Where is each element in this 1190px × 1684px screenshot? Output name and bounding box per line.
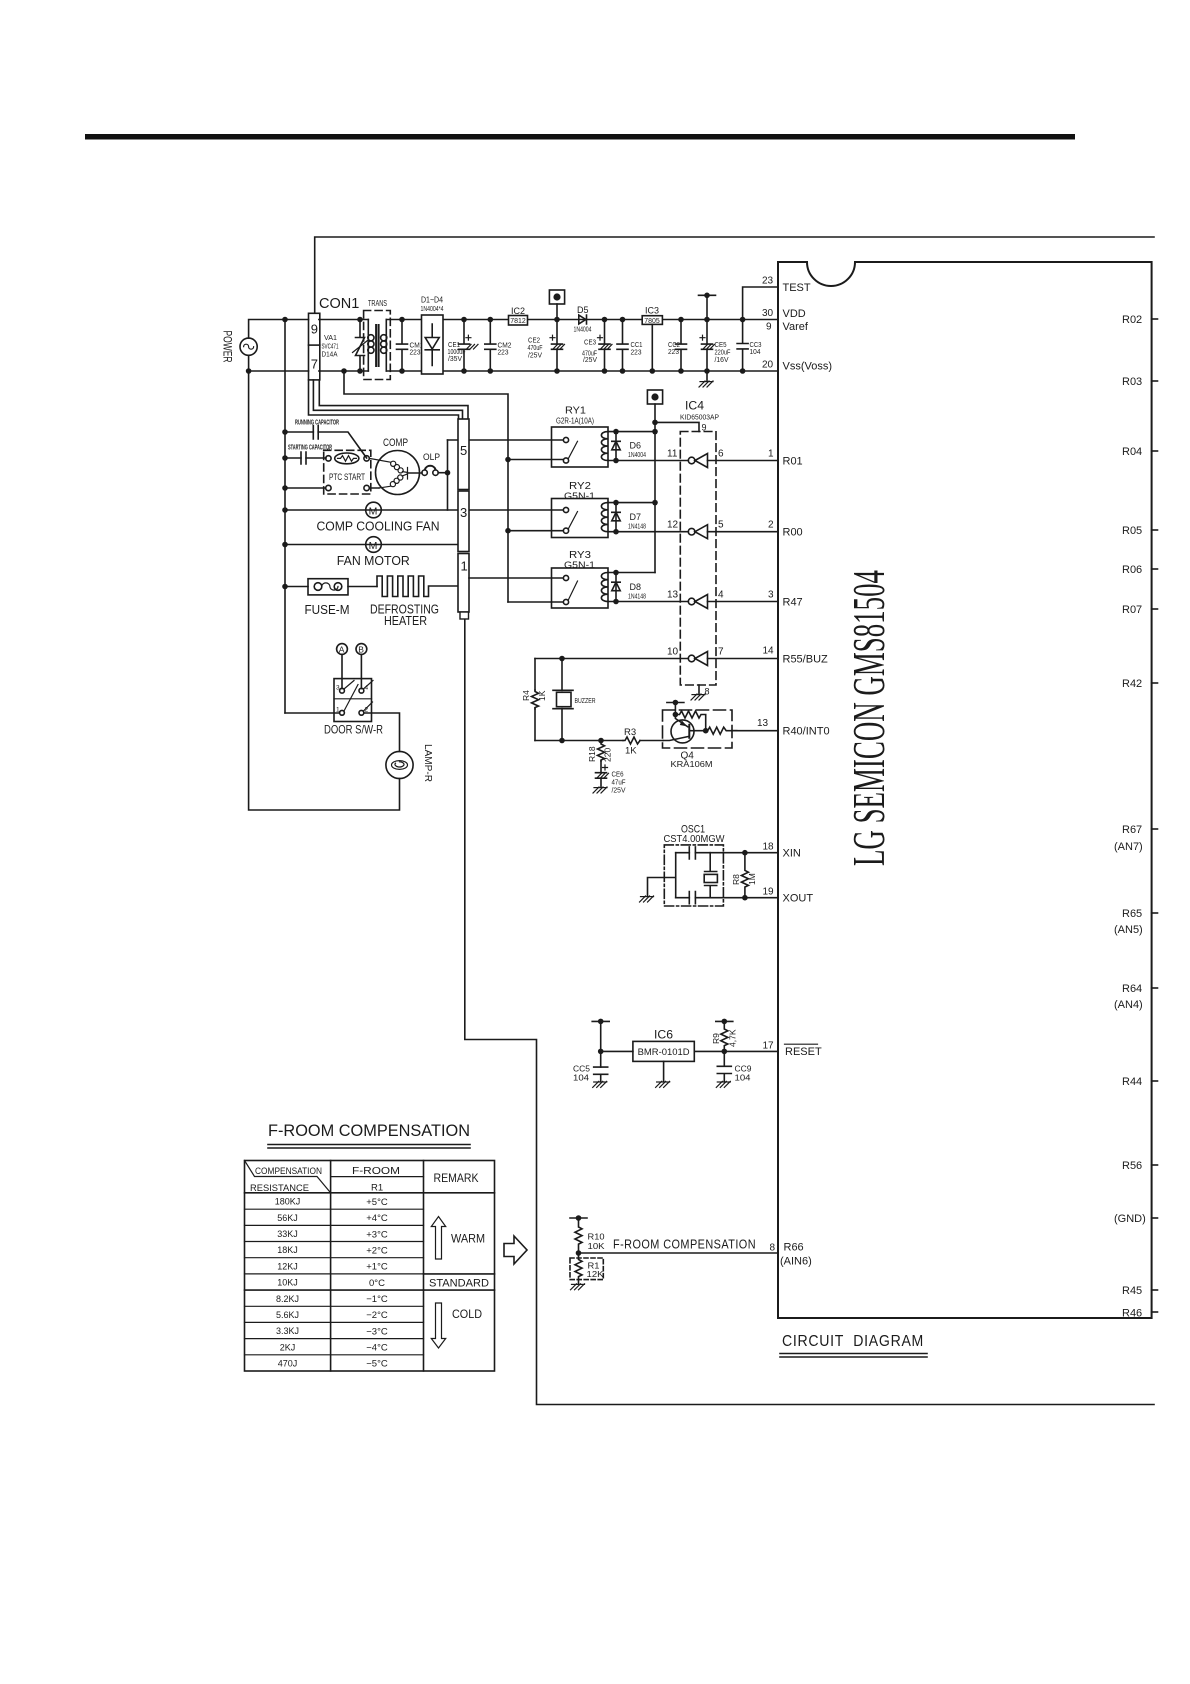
svg-text:LG SEMICON GMS81504: LG SEMICON GMS81504: [843, 570, 894, 866]
svg-text:+3°C: +3°C: [366, 1229, 388, 1240]
ground CC9: [716, 1081, 730, 1087]
test point TP1: [549, 290, 564, 304]
svg-text:POWER: POWER: [221, 331, 233, 363]
svg-text:−3°C: −3°C: [366, 1326, 388, 1337]
svg-text:12KJ: 12KJ: [277, 1261, 298, 1271]
svg-text:/25V: /25V: [583, 357, 597, 364]
wire IC6 out to RESET: [694, 1050, 778, 1052]
resistor R8 1M: [731, 850, 757, 901]
svg-text:Vss(Voss): Vss(Voss): [783, 361, 833, 373]
svg-text:CIRCUIT DIAGRAM: CIRCUIT DIAGRAM: [782, 1333, 924, 1350]
svg-text:(AN7): (AN7): [1114, 841, 1143, 853]
svg-text:R47: R47: [783, 597, 803, 609]
regulator IC2 7812: [509, 306, 528, 325]
capacitor CE3 electrolytic: [582, 317, 612, 374]
svg-text:9: 9: [766, 322, 772, 333]
node neutral branch for relay commons: [341, 368, 347, 374]
svg-text:LAMP-R: LAMP-R: [422, 744, 434, 782]
wire fuse row: [285, 586, 377, 588]
svg-text:R4: R4: [521, 690, 531, 701]
svg-text:104: 104: [735, 1073, 751, 1083]
svg-text:TRANS: TRANS: [368, 299, 387, 308]
svg-text:R04: R04: [1122, 446, 1142, 458]
node buzzer top: [559, 656, 565, 662]
svg-text:CM2: CM2: [498, 343, 512, 350]
capacitor CC5 104: [573, 1064, 608, 1083]
svg-text:CC1: CC1: [631, 342, 643, 349]
svg-text:CE3: CE3: [584, 339, 596, 346]
svg-text:FUSE-M: FUSE-M: [305, 602, 350, 617]
wire R4 branch: [534, 659, 536, 741]
node coil supply branch: [652, 420, 658, 426]
ground OSC1: [640, 896, 654, 902]
svg-text:(AN4): (AN4): [1114, 999, 1143, 1011]
svg-text:18KJ: 18KJ: [277, 1245, 298, 1255]
wire left bus: [284, 320, 286, 714]
svg-text:F-ROOM COMPENSATION: F-ROOM COMPENSATION: [613, 1238, 756, 1252]
svg-text:13: 13: [757, 718, 769, 729]
svg-text:COLD: COLD: [452, 1307, 482, 1321]
wire RY1 coil out to inverter: [608, 460, 688, 462]
svg-text:180KJ: 180KJ: [275, 1197, 301, 1207]
svg-text:/25V: /25V: [612, 788, 626, 795]
svg-text:1N4148: 1N4148: [628, 594, 646, 601]
svg-text:8.2KJ: 8.2KJ: [276, 1294, 299, 1304]
schematic border bottom-left: [465, 619, 1154, 1405]
svg-text:18: 18: [763, 842, 775, 853]
resistor R4 1K: [521, 690, 547, 709]
svg-text:R56: R56: [1122, 1160, 1142, 1172]
svg-text:+1°C: +1°C: [366, 1262, 388, 1273]
switch DOOR S/W-R: [324, 679, 383, 737]
svg-text:3: 3: [460, 505, 467, 520]
wire CON1 lower pin A to strip: [309, 380, 459, 419]
microcontroller U2 GMS81504: [778, 262, 1152, 1318]
svg-text:104: 104: [573, 1073, 589, 1083]
svg-text:D5: D5: [577, 305, 589, 315]
node buzzer bottom: [559, 738, 565, 744]
fuse FUSE-M: [305, 579, 350, 617]
inverter U1A: [667, 449, 724, 468]
relay RY3: [552, 549, 609, 608]
svg-text:470uF: 470uF: [528, 345, 543, 352]
resistor R3 1K: [623, 727, 640, 757]
svg-text:47uF: 47uF: [612, 780, 626, 787]
svg-text:R67: R67: [1122, 824, 1142, 836]
node relay2 common: [505, 528, 511, 534]
svg-text:CE1: CE1: [448, 342, 460, 349]
svg-text:IC6: IC6: [654, 1028, 673, 1042]
svg-text:1: 1: [461, 559, 468, 574]
svg-text:6: 6: [718, 449, 724, 460]
ground IC6: [656, 1081, 670, 1087]
svg-text:30: 30: [762, 308, 774, 319]
transistor Q4 KRA106M: [663, 703, 737, 769]
wire RY2 coil top: [608, 502, 655, 504]
wire RY3 coil top: [608, 572, 655, 574]
wire reset left branch: [600, 1021, 602, 1081]
arrow table pointer: [504, 1236, 527, 1264]
svg-text:CON1: CON1: [319, 296, 359, 312]
overload protector OLP: [422, 452, 450, 476]
svg-text:IC4: IC4: [685, 399, 704, 413]
svg-text:M: M: [369, 505, 378, 517]
AC power source: [240, 338, 257, 355]
svg-text:BUZZER: BUZZER: [575, 696, 596, 705]
resistor R18 220: [587, 741, 613, 763]
wire RY3 coil out to inverter: [608, 601, 688, 603]
svg-text:4: 4: [718, 590, 724, 601]
wire IC4 pin9 stub: [655, 422, 699, 431]
thermistor PTC START: [324, 450, 371, 494]
svg-text:1K: 1K: [537, 690, 547, 701]
svg-text:1N4148: 1N4148: [628, 524, 646, 531]
svg-text:−5°C: −5°C: [366, 1359, 388, 1370]
node R10 R1: [576, 1250, 582, 1256]
svg-text:R64: R64: [1122, 983, 1142, 995]
svg-text:(AN5): (AN5): [1114, 924, 1143, 936]
wire RY2 coil out to inverter: [608, 531, 688, 533]
svg-text:33KJ: 33KJ: [277, 1229, 298, 1239]
svg-text:IC2: IC2: [511, 306, 525, 316]
bridge rectifier D1~D4: [421, 296, 444, 375]
svg-text:R42: R42: [1122, 678, 1142, 690]
svg-text:COMPENSATION: COMPENSATION: [255, 1166, 322, 1177]
svg-text:23: 23: [762, 276, 774, 287]
wire fan motor row: [285, 544, 458, 546]
diode D8: [612, 573, 646, 605]
svg-text:+4°C: +4°C: [366, 1213, 388, 1224]
svg-text:10KJ: 10KJ: [277, 1278, 298, 1288]
svg-text:8: 8: [770, 1243, 776, 1254]
capacitor CE1 electrolytic: [448, 317, 479, 374]
diode D6: [612, 432, 646, 464]
svg-text:F-ROOM: F-ROOM: [352, 1166, 400, 1177]
wire RY1 coil top: [608, 431, 655, 433]
capacitor CC3: [737, 317, 761, 374]
svg-text:−1°C: −1°C: [366, 1294, 388, 1305]
node running cap: [282, 429, 288, 435]
wire RY2 common row: [508, 530, 563, 532]
table compensation: [245, 1161, 495, 1372]
ground CC5: [593, 1081, 607, 1087]
capacitor STARTING CAPACITOR: [288, 443, 332, 465]
svg-text:BMR-0101D: BMR-0101D: [638, 1047, 691, 1057]
svg-text:2KJ: 2KJ: [280, 1342, 296, 1352]
svg-text:FAN MOTOR: FAN MOTOR: [337, 553, 410, 568]
svg-text:M: M: [369, 540, 378, 552]
wire buzzer bottom row: [535, 740, 663, 742]
svg-text:−2°C: −2°C: [366, 1310, 388, 1321]
wire inverter2 out: [708, 531, 779, 533]
svg-text:7: 7: [718, 647, 724, 658]
wire inverter4 out: [708, 658, 779, 660]
wire door switch pin2 to lamp: [364, 713, 400, 751]
svg-text:D14A: D14A: [322, 350, 338, 359]
reset ic IC6 BMR-0101D: [633, 1028, 694, 1082]
driver IC4 KID65003AP: [680, 399, 719, 686]
svg-text:CE2: CE2: [528, 338, 540, 345]
svg-text:B: B: [358, 645, 364, 655]
svg-text:3: 3: [336, 685, 340, 692]
wire running capacitor row: [285, 432, 367, 458]
svg-text:−4°C: −4°C: [366, 1343, 388, 1354]
svg-text:R10: R10: [588, 1232, 605, 1242]
heater DEFROSTING HEATER: [370, 576, 458, 628]
inverter U1B: [667, 520, 724, 539]
svg-text:CE6: CE6: [612, 772, 624, 779]
svg-text:OLP: OLP: [423, 452, 440, 463]
svg-text:R01: R01: [783, 456, 803, 468]
svg-text:12K: 12K: [587, 1270, 605, 1279]
svg-text:TEST: TEST: [783, 282, 811, 294]
svg-text:3: 3: [768, 590, 774, 601]
varistor VA1: [322, 317, 368, 374]
svg-text:7: 7: [311, 357, 318, 372]
node fan motor row: [282, 542, 288, 548]
svg-text:RESET: RESET: [785, 1046, 822, 1058]
svg-text:CE5: CE5: [715, 342, 727, 349]
node neutral corner: [246, 368, 252, 374]
svg-text:D1~D4: D1~D4: [421, 296, 443, 305]
capacitor RUNNING CAPACITOR: [295, 418, 339, 440]
svg-text:R1: R1: [371, 1183, 383, 1194]
svg-text:20: 20: [762, 360, 774, 371]
wire live to CON1 pin9: [249, 320, 309, 339]
wire buzzer drive row: [535, 658, 688, 660]
svg-text:WARM: WARM: [451, 1232, 485, 1246]
node starting cap: [282, 455, 288, 461]
svg-text:10K: 10K: [588, 1241, 605, 1251]
svg-text:R40/INT0: R40/INT0: [783, 726, 830, 738]
supply tap R9: [716, 1019, 733, 1025]
svg-text:R46: R46: [1122, 1308, 1142, 1320]
terminal B: [356, 644, 367, 689]
resonator OSC1 CST4.00MGW: [648, 824, 725, 907]
svg-text:5: 5: [718, 520, 724, 531]
svg-text:5.6KJ: 5.6KJ: [276, 1310, 299, 1320]
test point TP2: [647, 390, 662, 404]
svg-text:/25V: /25V: [528, 353, 542, 360]
svg-text:8: 8: [705, 687, 710, 697]
svg-text:R07: R07: [1122, 604, 1142, 616]
svg-text:A: A: [339, 645, 345, 655]
node PTC bottom: [282, 485, 288, 491]
svg-text:D6: D6: [630, 440, 642, 450]
svg-text:4,7K: 4,7K: [728, 1029, 738, 1047]
svg-text:REMARK: REMARK: [434, 1173, 479, 1185]
svg-text:(GND): (GND): [1114, 1213, 1146, 1225]
svg-text:7805: 7805: [644, 316, 660, 325]
wire relay common bus: [344, 371, 508, 602]
svg-text:223: 223: [668, 349, 679, 356]
wire CON1 lower pin C to strip: [319, 380, 468, 419]
wire pin5 row to RY1: [448, 439, 564, 441]
svg-text:10: 10: [667, 647, 679, 658]
wire RY1 common row: [508, 459, 563, 461]
svg-text:KRA106M: KRA106M: [671, 759, 713, 769]
node R18 tap: [598, 738, 604, 744]
wire starting capacitor row: [285, 457, 326, 459]
svg-text:COMP COOLING FAN: COMP COOLING FAN: [317, 519, 440, 534]
schematic border top: [315, 237, 1154, 313]
svg-text:D7: D7: [630, 512, 642, 522]
svg-text:F-ROOM COMPENSATION: F-ROOM COMPENSATION: [268, 1122, 470, 1140]
regulator IC3 7805: [642, 306, 662, 374]
svg-text:Varef: Varef: [783, 321, 809, 333]
capacitor CC2: [668, 317, 687, 374]
svg-text:R06: R06: [1122, 564, 1142, 576]
svg-text:2: 2: [768, 520, 774, 531]
svg-text:223: 223: [631, 349, 642, 356]
svg-text:R18: R18: [587, 746, 597, 762]
inverter U1D: [667, 647, 724, 666]
svg-text:R65: R65: [1122, 908, 1142, 920]
node R9 junction: [722, 1049, 728, 1055]
capacitor CC9 104: [717, 1051, 751, 1082]
wire RY3 common row: [508, 601, 563, 603]
svg-text:5: 5: [460, 443, 467, 458]
wire F-ROOM COMPENSATION to pin8: [579, 1252, 779, 1254]
svg-text:D8: D8: [630, 582, 642, 592]
node live bus tap: [282, 317, 288, 323]
connector CON1: [309, 313, 320, 380]
ground IC4 pin8: [691, 694, 705, 700]
svg-text:KID65003AP: KID65003AP: [680, 415, 719, 422]
svg-text:R05: R05: [1122, 525, 1142, 537]
diode D7: [612, 503, 646, 535]
relay RY1: [552, 405, 609, 468]
wire Vss bottom rail: [319, 370, 778, 372]
wire TEST pin branch: [743, 287, 778, 320]
wire VDD top rail: [319, 319, 778, 321]
svg-text:/16V: /16V: [715, 357, 729, 364]
wire inverter1 out: [708, 460, 779, 462]
wire CE5 tap: [706, 295, 708, 319]
svg-text:R02: R02: [1122, 314, 1142, 326]
wire comp cooling fan row: [285, 509, 458, 511]
svg-text:3.3KJ: 3.3KJ: [276, 1326, 299, 1336]
capacitor CM2: [485, 317, 512, 374]
supply tap R10: [570, 1215, 587, 1221]
wire bus to door switch pin1: [285, 712, 340, 714]
svg-text:PTC START: PTC START: [329, 472, 365, 483]
page top rule: [85, 134, 1075, 140]
supply tap CC5: [592, 1019, 609, 1025]
svg-text:R3: R3: [624, 727, 636, 738]
svg-text:7812: 7812: [510, 316, 526, 325]
wire neutral to CON1 pin7: [249, 355, 309, 371]
wire IC4 pin8 stub: [698, 685, 700, 694]
ground CE6: [593, 787, 607, 793]
wire to IC6: [601, 1050, 633, 1052]
svg-text:G5N-1: G5N-1: [564, 491, 595, 501]
wire lamp return loop: [249, 371, 400, 810]
wire TP1 stem: [556, 304, 558, 320]
svg-text:223: 223: [410, 350, 421, 357]
wire CON1 lower pin B to strip: [313, 380, 462, 419]
svg-text:/35V: /35V: [448, 356, 462, 363]
ground R1: [571, 1284, 585, 1290]
capacitor CE5 electrolytic: [700, 317, 731, 381]
svg-text:17: 17: [763, 1040, 775, 1051]
compressor COMP: [369, 437, 422, 495]
svg-text:+2°C: +2°C: [366, 1245, 388, 1256]
transformer TRANS: [364, 299, 391, 380]
svg-text:220: 220: [603, 748, 613, 762]
node fan row: [282, 507, 288, 513]
svg-text:R03: R03: [1122, 376, 1142, 388]
svg-text:1M: 1M: [747, 873, 757, 885]
lamp LAMP-R: [386, 744, 434, 782]
svg-text:1N4004*4: 1N4004*4: [421, 306, 444, 313]
svg-text:DOOR S/W-R: DOOR S/W-R: [324, 723, 383, 737]
capacitor CE6 electrolytic: [596, 761, 626, 795]
wire RY2 pin3 row: [469, 509, 563, 511]
svg-text:IC3: IC3: [645, 306, 659, 316]
wire RY3 pin1 row: [469, 577, 563, 579]
svg-text:104: 104: [750, 349, 761, 356]
terminal A: [337, 644, 348, 689]
diode D5: [574, 305, 592, 333]
svg-text:12: 12: [667, 520, 679, 531]
svg-text:R66: R66: [784, 1242, 804, 1254]
ground under CE5: [699, 381, 713, 387]
svg-text:1K: 1K: [625, 746, 637, 757]
svg-text:223: 223: [498, 350, 509, 357]
svg-text:13: 13: [667, 590, 679, 601]
wire XIN: [676, 852, 778, 854]
inverter U1C: [667, 590, 724, 609]
resistor R1 12K: [570, 1253, 604, 1284]
motor COMP COOLING FAN: [317, 502, 440, 533]
svg-text:220uF: 220uF: [715, 350, 731, 357]
wire PTC bottom row: [285, 487, 379, 489]
svg-text:COMP: COMP: [383, 437, 408, 449]
svg-text:R00: R00: [783, 527, 803, 539]
svg-text:VDD: VDD: [783, 308, 806, 320]
svg-text:1N4004: 1N4004: [628, 452, 646, 459]
buzzer BUZZER: [553, 659, 596, 741]
svg-text:1: 1: [768, 449, 774, 460]
wire XOUT: [676, 897, 778, 899]
svg-text:+5°C: +5°C: [366, 1197, 388, 1208]
capacitor CC1: [617, 317, 643, 374]
svg-text:STANDARD: STANDARD: [429, 1278, 489, 1290]
svg-text:G2R-1A(10A): G2R-1A(10A): [556, 415, 594, 425]
svg-text:11: 11: [667, 449, 678, 460]
svg-text:4: 4: [365, 685, 369, 692]
relay RY2: [552, 480, 609, 538]
svg-text:1N4004: 1N4004: [574, 326, 592, 333]
svg-text:1000uF: 1000uF: [448, 349, 466, 356]
svg-text:R45: R45: [1122, 1285, 1142, 1297]
node IC6 input: [598, 1049, 604, 1055]
svg-text:RUNNING CAPACITOR: RUNNING CAPACITOR: [295, 418, 339, 427]
supply tap Q4: [667, 700, 684, 706]
svg-text:R55/BUZ: R55/BUZ: [783, 654, 829, 666]
wire inverter3 out: [708, 601, 779, 603]
supply tap above CE5: [699, 293, 716, 299]
svg-text:R8: R8: [731, 874, 741, 885]
svg-text:CST4.00MGW: CST4.00MGW: [664, 833, 725, 845]
svg-text:56KJ: 56KJ: [277, 1213, 298, 1223]
svg-text:HEATER: HEATER: [384, 613, 427, 628]
resistor R9 4.7K: [711, 1021, 738, 1051]
connector strip pins 5 3 1: [458, 419, 469, 619]
motor FAN MOTOR: [337, 537, 410, 568]
wire TP2 coil supply line: [654, 404, 656, 573]
